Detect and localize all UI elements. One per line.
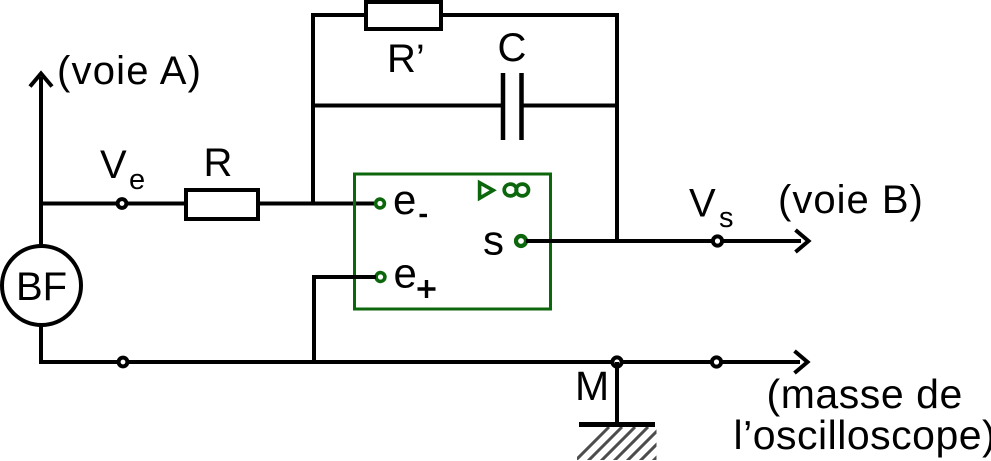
ground hatching <box>569 427 687 461</box>
svg-text:(voie B): (voie B) <box>778 178 924 222</box>
svg-text:(voie A): (voie A) <box>57 49 202 93</box>
svg-text:e: e <box>394 250 417 297</box>
label Ve <box>100 143 145 196</box>
node M <box>612 357 621 366</box>
svg-text:BF: BF <box>16 265 67 309</box>
wire: e+ branch <box>314 277 376 362</box>
svg-text:R: R <box>204 141 233 185</box>
node s (pin) <box>516 236 526 246</box>
node e+ (pin) <box>376 273 385 282</box>
svg-text:e: e <box>393 176 416 223</box>
svg-text:(masse de: (masse de <box>767 371 963 417</box>
svg-text:s: s <box>483 217 504 264</box>
label Vs <box>689 182 734 235</box>
arrow right (masse) <box>795 351 808 373</box>
node Ve <box>118 199 127 208</box>
wire: feedback right vertical <box>615 13 619 243</box>
node (rail left) <box>119 358 128 367</box>
node (rail right) <box>712 357 721 366</box>
svg-text:l’oscilloscope): l’oscilloscope) <box>734 412 991 458</box>
wire: feedback middle (capacitor branch) <box>313 104 501 108</box>
op-amp infinity symbol <box>504 184 528 196</box>
ground bar <box>579 422 655 427</box>
wire <box>523 104 617 108</box>
ground stem <box>615 362 619 424</box>
op-amp U1 box <box>355 174 551 309</box>
node Vs <box>713 236 722 245</box>
label e- <box>393 176 427 223</box>
svg-text:V: V <box>100 143 127 187</box>
svg-text:M: M <box>575 363 609 409</box>
wire: feedback left vertical <box>311 13 315 204</box>
node e- (pin) <box>376 199 385 208</box>
svg-text:e: e <box>129 164 145 196</box>
resistor R <box>186 190 258 219</box>
label e+ <box>394 250 436 299</box>
svg-text:R’: R’ <box>387 37 425 81</box>
label (masse de l'oscilloscope) <box>734 371 991 458</box>
wire: feedback top <box>311 13 619 17</box>
resistor R' <box>366 2 441 29</box>
wire: BF bottom leg <box>39 325 43 364</box>
wire: left riser (voie A) <box>39 77 43 246</box>
wire: main input (Ve to R to e-) <box>39 202 374 206</box>
svg-text:s: s <box>719 202 734 234</box>
svg-text:V: V <box>689 182 716 226</box>
svg-text:C: C <box>498 26 527 70</box>
op-amp triangle symbol <box>480 183 494 199</box>
generator BF <box>2 246 81 325</box>
arrow right (voie B) <box>796 230 809 252</box>
wire: bottom ground rail <box>41 360 800 364</box>
capacitor C <box>503 73 522 140</box>
arrow up (voie A) <box>30 74 52 87</box>
wire: output (s to voie B) <box>526 239 801 243</box>
